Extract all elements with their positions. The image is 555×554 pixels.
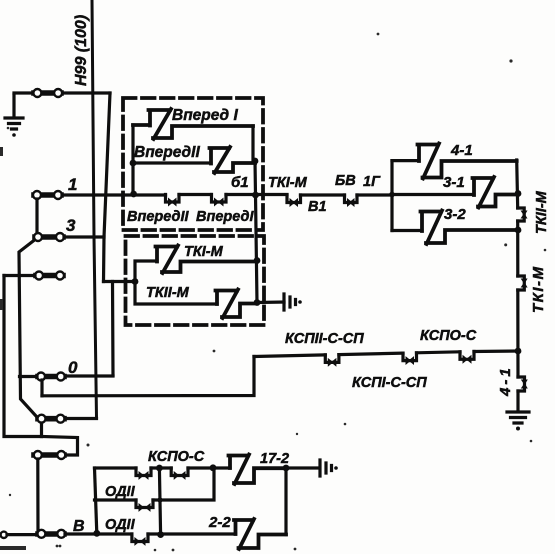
label КСПI-С-СП [352,375,427,391]
knife contact top row [34,90,61,96]
wire node A riser [131,125,134,194]
svg-text:ВпередI: ВпередI [196,209,254,225]
node rail 3-2 [515,227,522,234]
svg-text:б1: б1 [231,174,249,191]
wire ОД middle branch [95,468,215,500]
wire 3 to V2 [64,235,104,238]
wire row419 stub down [40,423,43,437]
svg-text:ТКII-М: ТКII-М [534,190,550,234]
dashed box ТК group [126,236,265,325]
node label 1 [68,175,77,194]
contact arrows ВпередII [166,195,180,203]
svg-text:КСПII-С-СП: КСПII-С-СП [285,331,364,347]
wire 0 right to riser [65,374,113,377]
wire 3/0 feed into box [104,280,134,283]
contact arrows ОДII middle [136,500,153,508]
ground bottom right [507,412,529,423]
svg-text:ОДII: ОДII [105,517,136,533]
contact arrows КСПО-С [460,352,474,360]
label 4-1 [450,142,473,159]
label БВ [335,173,356,189]
svg-text:ТКI-М: ТКI-М [268,175,308,191]
label ВпередII lower [127,209,189,225]
knife contact row 455 [34,452,64,458]
label ВпередI lower [196,209,254,225]
wire branch 3-1 entry [392,193,474,196]
svg-text:БВ: БВ [335,173,356,189]
svg-text:3: 3 [66,216,76,235]
svg-text:0: 0 [68,358,78,377]
node B [252,158,259,165]
label Вперед II [134,144,200,161]
node bus left rail [93,530,100,537]
contact arrows БВ [345,195,358,203]
knife contact row 419 [38,416,64,422]
label КСПО-С ОД block [148,449,205,465]
wire branch 3-2 entry [392,229,422,232]
node 17-2 exit [283,465,290,472]
label 4-1 rotated [497,365,514,397]
node rail 3-1 [515,190,522,197]
contact arrows ОД top-left [136,468,151,476]
wire x160 riser [159,468,160,535]
wire 1 main run [62,193,392,197]
ground right of 17-2 [320,460,332,476]
knife contact row 1 [34,192,61,198]
contact arrows ТКII-М rail [518,208,525,221]
node label 0 [68,358,78,377]
svg-text:ВпередII: ВпередII [134,144,200,161]
wire row В left [7,533,37,536]
contact Z 2-2 [234,519,286,549]
node label В [73,518,85,535]
wire to ground 17-2 [286,466,319,469]
label 3-1 [443,174,465,191]
node rail КСП [515,348,522,355]
contact arrows КСПI-С-СП [403,353,417,361]
contact arrows ТКI-М rail [518,276,525,290]
wire TKII-M branch drop [135,282,217,305]
svg-text:1Г: 1Г [363,174,381,190]
label ТКI-М box [184,244,224,260]
wire 437 across to riser [42,437,78,456]
ground right of TK box [284,294,296,310]
node bus x160 [157,531,164,538]
node TKI exit [254,257,261,264]
wire row419 right to H99 [65,417,97,420]
svg-text:2-2: 2-2 [208,514,231,531]
knife contact row 3 [35,234,63,240]
contact Z ТКI-М [156,246,258,274]
svg-text:ТКI-М: ТКI-М [184,244,224,260]
node TKII exit [254,299,261,306]
ground top-left [5,95,23,129]
label КСПII-С-СП [285,331,364,347]
wire aux row left [4,274,35,277]
wire top bus to ground [14,91,110,94]
label ОДII lower [105,517,136,533]
svg-text:ТКII-М: ТКII-М [146,285,190,301]
wire bottom bus [65,532,236,535]
contact Z 3-2 [421,211,519,245]
svg-text:ТКI-М: ТКI-М [530,265,547,313]
wire 0 left tap [20,375,38,378]
svg-text:КСПI-С-СП: КСПI-С-СП [352,375,427,391]
node wire1-B [252,192,259,199]
wire row455 down to row B [36,459,39,534]
node wire1-A [130,191,137,198]
contact arrows КСПО-С ОД [171,468,188,476]
label ТКI-М rotated [530,265,547,313]
node label 3 [66,216,76,235]
node TK feed [132,278,139,285]
wire right rail of TK box [255,161,257,303]
knife contact row 0 [38,374,64,380]
wire long bottom feed [40,380,43,396]
svg-text:3-2: 3-2 [444,206,466,223]
contact Z 4-1 [418,144,517,179]
wire Н99 vertical bus [92,0,97,418]
label ТКII-М rotated [534,190,550,234]
label 3-2 [444,206,466,223]
contact Z ТКII-М [216,290,258,319]
contact arrows ТКI-М/В1 [287,195,301,203]
contact arrows 4-1 rail [518,377,525,391]
svg-text:КСПО-С: КСПО-С [148,449,205,465]
wire ОД block left rail [95,468,97,533]
contact Z 17-2 [229,455,287,485]
node Н99 label [73,15,90,86]
node A [130,160,137,167]
contact arrows ВпередI [212,195,227,203]
label 2-2 [208,514,231,531]
svg-text:Вперед I: Вперед I [172,107,238,124]
wire TKI-M branch riser [135,261,157,282]
wire riser 0 to TK feed [111,282,115,376]
svg-text:КСПО-С: КСПО-С [420,328,477,344]
label ОДII upper [105,484,136,500]
wire parallel-left rail [390,161,393,231]
svg-text:ВпередII: ВпередII [127,209,189,225]
node ОД top right [210,464,217,471]
dashed box Вперед group [123,98,263,230]
node middle x160 [157,497,162,502]
svg-text:17-2: 17-2 [260,451,289,467]
label 17-2 [260,451,289,467]
wire branch 4-1 entry [392,159,419,162]
wire ОД top branch [95,466,231,469]
wire 3 left diagonal down [19,240,36,416]
wire branch1 right drop [253,126,255,161]
contact arrows bus ОД [132,534,148,542]
wire riser 2-2 to node [284,468,287,535]
wire left rail x4 down and over [4,276,42,437]
wire to ground right of box [257,300,284,304]
node 1Г rail junction [389,192,395,198]
knife contact row В [38,531,64,537]
label 1Г [363,174,381,190]
node ОД top mid [156,465,163,472]
wire row1 to row3 [35,199,38,233]
svg-text:4-1: 4-1 [497,365,514,397]
svg-text:Н99 (100): Н99 (100) [73,15,90,86]
label В1 [308,199,327,215]
wire right rail [517,160,518,411]
contact Z б1 [210,147,256,173]
contact Z 3-1 [473,177,519,208]
wire node A to Z б1 [133,161,211,164]
contact arrows КСПII-С-СП [325,355,339,363]
contact Z Вперед I [133,109,253,139]
label ТКI-М wire1 [268,175,308,191]
svg-text:1: 1 [68,175,77,194]
label ТКII-М box [146,285,190,301]
label КСПО-С [420,328,477,344]
wire КСП run [254,351,518,357]
label б1 [231,174,249,191]
knife contact row aux [36,273,63,279]
svg-text:В1: В1 [308,199,327,215]
label Вперед I [172,107,238,124]
svg-text:ОДII: ОДII [105,484,136,500]
svg-text:4-1: 4-1 [450,142,473,159]
wire V2 from bus corner down to wire 3 [104,93,111,282]
svg-text:3-1: 3-1 [443,174,465,191]
